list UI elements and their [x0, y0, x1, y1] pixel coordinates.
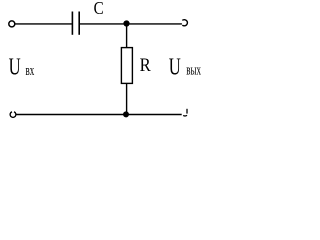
wire: junction to resistor [126, 24, 128, 49]
svg-text:вых: вых [186, 61, 201, 78]
input terminal top-left [9, 21, 15, 27]
svg-text:вх: вх [26, 62, 35, 79]
node label U_вых (output voltage) [169, 52, 201, 80]
svg-text:C: C [94, 0, 104, 18]
output terminal top-right [182, 20, 187, 26]
wire: capacitor to output terminal [80, 23, 182, 25]
node junction bottom [123, 111, 129, 117]
node label U_вх (input voltage) [9, 52, 35, 80]
node junction top [123, 20, 129, 26]
svg-text:R: R [140, 54, 151, 75]
capacitor C1 plates [72, 12, 79, 35]
wire: input terminal to capacitor [15, 23, 72, 25]
return terminal bottom-right [183, 109, 187, 116]
value label C [94, 0, 104, 18]
svg-text:U: U [9, 52, 21, 80]
wire: resistor to bottom junction [126, 83, 128, 114]
return terminal bottom-left [10, 112, 16, 118]
wire: bottom return [16, 114, 182, 116]
resistor R1 body [121, 48, 132, 84]
svg-text:U: U [169, 52, 181, 80]
value label R [140, 54, 151, 75]
